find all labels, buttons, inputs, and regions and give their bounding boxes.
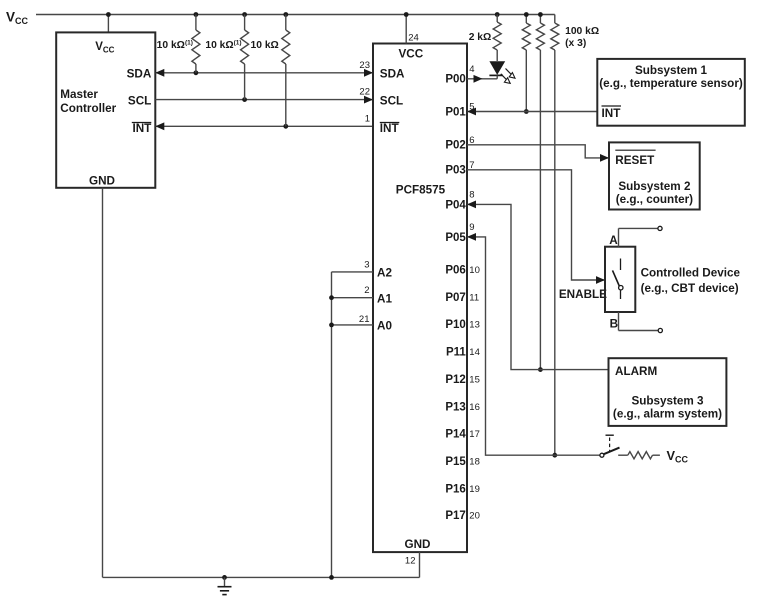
pin number 2 (364, 285, 369, 296)
junction dot VCC rail / Master stub (106, 12, 111, 17)
svg-text:VCC: VCC (398, 48, 423, 61)
svg-text:4: 4 (469, 64, 474, 75)
svg-text:1: 1 (365, 113, 370, 124)
pin label VCC (Master) (95, 41, 114, 55)
svg-text:ENABLE: ENABLE (559, 288, 607, 301)
pin number 7 (469, 160, 474, 171)
svg-text:INT: INT (132, 122, 152, 135)
pin label GND (Master) (89, 175, 115, 188)
pin label RESET (Subsystem 2) (615, 150, 655, 167)
junction dot VCC rail / pin 24 (404, 12, 409, 17)
svg-text:INT: INT (602, 107, 622, 120)
svg-text:14: 14 (469, 347, 480, 358)
text Subsystem 2 (616, 180, 693, 206)
block Subsystem 1 (597, 59, 745, 126)
resistor pullup at switch (628, 452, 653, 459)
svg-text:B: B (610, 318, 618, 331)
svg-text:100 kΩ: 100 kΩ (565, 26, 599, 37)
svg-text:P06: P06 (445, 265, 465, 277)
svg-text:P01: P01 (445, 106, 466, 118)
svg-text:(e.g., counter): (e.g., counter) (616, 193, 693, 206)
resistor 10 kOhm pullup 3 (282, 15, 290, 127)
junction dot 100k-2 / ALARM (538, 367, 543, 372)
pin number 24 (408, 33, 419, 44)
pin label INT (Master) (132, 122, 152, 135)
svg-text:SDA: SDA (380, 68, 405, 81)
resistor 100 kOhm 1 (522, 15, 530, 51)
junction dot SCL / R2 pullup (242, 97, 247, 102)
pin label P13 (445, 401, 465, 413)
pin number 4 (469, 64, 474, 75)
junction dot VCC rail / 100k 2 (538, 12, 543, 17)
wire P00 to LED (467, 78, 497, 80)
junction dot 100k-3 / switch net (552, 453, 557, 458)
pin number 6 (469, 135, 474, 146)
svg-text:P11: P11 (446, 347, 466, 359)
svg-text:P13: P13 (445, 401, 465, 413)
junction dot INT / R3 pullup (283, 124, 288, 129)
pin number 8 (469, 189, 474, 200)
value label 10 kOhm 3 (251, 40, 279, 51)
arrowhead SDA into Master (155, 69, 164, 77)
terminal A (619, 226, 663, 246)
arrowhead SDA into PCF8575 pin 23 (364, 69, 373, 77)
text Master Controller name (60, 88, 116, 115)
pin label P10 (445, 319, 465, 331)
pin number 18 (469, 457, 480, 468)
svg-text:13: 13 (469, 320, 480, 331)
svg-text:A: A (609, 234, 618, 247)
wire 100k-3 down to switch net (554, 50, 556, 455)
svg-text:20: 20 (469, 510, 480, 521)
resistor 10 kOhm pullup 2 (241, 15, 249, 100)
wire Master VCC stub (107, 15, 109, 33)
svg-text:P16: P16 (445, 483, 465, 495)
pin label P12 (445, 374, 465, 386)
svg-text:2: 2 (364, 285, 369, 296)
value label 10 kOhm 1 (157, 40, 193, 52)
svg-text:3: 3 (364, 259, 369, 270)
value label 10 kOhm 2 (205, 40, 241, 52)
value label 2 kOhm (469, 32, 492, 43)
wire switch to resistor (618, 454, 628, 456)
pin number 5 (469, 102, 474, 113)
svg-text:Controlled Device: Controlled Device (641, 266, 741, 279)
node VCC at switch (667, 448, 689, 465)
junction dot VCC rail / 2k (495, 12, 500, 17)
pin label VCC (U1) (398, 48, 423, 61)
svg-text:2 kΩ: 2 kΩ (469, 32, 492, 43)
pin label P04 (445, 199, 466, 211)
ground (218, 577, 232, 594)
pin number 21 (359, 314, 370, 325)
svg-text:(e.g., temperature sensor): (e.g., temperature sensor) (599, 77, 743, 90)
junction dot VCC rail / 10k resistor 3 (283, 12, 288, 17)
svg-text:Controller: Controller (60, 102, 116, 115)
pin number 3 (364, 259, 369, 270)
wire VCC rail (36, 14, 555, 16)
junction dot 100k-1 / P01 (524, 109, 529, 114)
pin number 17 (469, 429, 480, 440)
junction dot VCC rail / 10k resistor 1 (194, 12, 199, 17)
pin label A0 (377, 320, 392, 333)
pin label SDA (Master) (127, 68, 152, 81)
svg-text:P04: P04 (445, 199, 466, 211)
wire SDA bus (155, 72, 373, 74)
wire A-bus vertical (331, 272, 333, 578)
wire P04 to ALARM (467, 204, 609, 369)
svg-text:(x 3): (x 3) (565, 38, 586, 49)
wire P01 to Subsystem 1 INT (467, 111, 597, 113)
wire P05 to switch (467, 237, 600, 455)
pin label INT (Subsystem 1) (602, 106, 622, 120)
svg-text:SDA: SDA (127, 68, 152, 81)
arrowhead P01 input (467, 108, 476, 116)
resistor 10 kOhm pullup 1 (192, 15, 200, 73)
svg-text:(e.g., CBT device): (e.g., CBT device) (641, 282, 739, 295)
pin label P00 (445, 74, 465, 86)
switch S1 pushbutton (600, 435, 620, 457)
svg-text:RESET: RESET (615, 154, 655, 167)
pin label P03 (445, 165, 465, 177)
arrowhead P00 output (474, 75, 483, 83)
pin label P06 (445, 265, 465, 277)
svg-text:15: 15 (469, 374, 480, 385)
svg-text:9: 9 (469, 222, 474, 233)
wire INT bus (155, 125, 373, 127)
pin number 13 (469, 320, 480, 331)
svg-text:A0: A0 (377, 320, 392, 333)
block Controlled Device switch box (605, 247, 635, 312)
svg-text:P10: P10 (445, 319, 465, 331)
svg-text:P15: P15 (445, 456, 466, 468)
text Subsystem 3 (613, 395, 722, 421)
pin number 9 (469, 222, 474, 233)
wire A1 strap (332, 297, 374, 299)
svg-text:(e.g., alarm system): (e.g., alarm system) (613, 407, 722, 420)
pin label P01 (445, 106, 466, 118)
svg-text:11: 11 (469, 292, 479, 303)
pin number 14 (469, 347, 480, 358)
svg-text:21: 21 (359, 314, 370, 325)
wire U1 GND pin 12 stub (419, 552, 421, 577)
pin number 22 (359, 87, 370, 98)
svg-text:Subsystem 1: Subsystem 1 (635, 64, 708, 77)
junction dot VCC rail / 10k resistor 2 (242, 12, 247, 17)
pin label P14 (445, 429, 466, 441)
svg-text:P17: P17 (445, 510, 465, 522)
svg-text:P07: P07 (445, 292, 465, 304)
junction dot A0 (329, 323, 334, 328)
svg-text:Subsystem 2: Subsystem 2 (618, 180, 691, 193)
pin number 23 (359, 60, 370, 71)
svg-text:SCL: SCL (380, 94, 403, 107)
svg-text:GND: GND (89, 175, 115, 188)
svg-text:10: 10 (469, 265, 480, 276)
wire P02 to RESET (467, 145, 609, 158)
pin number 15 (469, 374, 480, 385)
pin number 20 (469, 510, 480, 521)
svg-text:ALARM: ALARM (615, 365, 657, 378)
arrowhead P04 input (467, 201, 476, 209)
arrowhead SCL into PCF8575 pin 22 (364, 96, 373, 104)
text Controlled Device (641, 266, 741, 295)
svg-text:P05: P05 (445, 232, 466, 244)
pin number 16 (469, 402, 480, 413)
arrowhead RESET input (600, 154, 609, 162)
wire A2 strap (332, 271, 374, 273)
wire SCL bus (155, 99, 373, 101)
svg-text:17: 17 (469, 429, 480, 440)
LED D1 (489, 61, 515, 83)
svg-text:19: 19 (469, 484, 480, 495)
resistor 100 kOhm 2 (536, 15, 544, 51)
svg-text:16: 16 (469, 402, 480, 413)
junction dot A-bus / ground rail (329, 575, 334, 580)
svg-text:PCF8575: PCF8575 (396, 184, 446, 197)
node VCC supply label (6, 9, 29, 26)
svg-text:SCL: SCL (128, 94, 151, 107)
wire 100k-1 to P01 net (525, 50, 527, 112)
wire ground rail (103, 576, 420, 578)
pin label P17 (445, 510, 465, 522)
node A label (609, 234, 618, 247)
pin label INT (U1) (380, 122, 400, 135)
svg-text:12: 12 (405, 556, 416, 567)
svg-text:P14: P14 (445, 429, 466, 441)
junction dot ground symbol (222, 575, 227, 580)
pin label P11 (446, 347, 466, 359)
pin label A1 (377, 293, 392, 306)
pin label SCL (Master) (128, 94, 151, 107)
svg-text:P00: P00 (445, 74, 465, 86)
pin label SCL (U1) (380, 94, 403, 107)
wire A0 strap (332, 324, 374, 326)
block Subsystem 2 (609, 142, 700, 209)
wire VCC pin 24 stub (405, 15, 407, 44)
arrowhead ENABLE input (596, 276, 605, 284)
pin label SDA (U1) (380, 68, 405, 81)
svg-text:Subsystem 3: Subsystem 3 (631, 395, 704, 408)
pin label P07 (445, 292, 465, 304)
svg-text:P03: P03 (445, 165, 465, 177)
arrowhead P05 input (467, 233, 476, 241)
wire resistor to VCC (653, 454, 660, 456)
svg-text:A1: A1 (377, 293, 392, 306)
pin number 1 (365, 113, 370, 124)
svg-text:P12: P12 (445, 374, 465, 386)
svg-text:10 kΩ: 10 kΩ (251, 40, 279, 51)
junction dot VCC rail / 100k 1 (524, 12, 529, 17)
svg-text:P02: P02 (445, 140, 465, 152)
block Subsystem 3 (609, 358, 727, 426)
node B label (610, 318, 618, 331)
text Subsystem 1 (599, 64, 743, 90)
text ENABLE (559, 288, 607, 301)
pin label P02 (445, 140, 465, 152)
pin number 12 (405, 556, 416, 567)
svg-text:23: 23 (359, 60, 370, 71)
svg-text:24: 24 (408, 33, 419, 44)
junction dot A1 (329, 295, 334, 300)
svg-text:INT: INT (380, 122, 400, 135)
wire 100k-2 down to ALARM net (539, 50, 541, 370)
wire P03 to ENABLE (467, 170, 605, 280)
arrowhead INT into Master (155, 122, 164, 130)
switch inside Controlled Device (613, 259, 624, 300)
value label 100 kOhm (x 3) (565, 26, 599, 49)
junction dot SDA / R1 pullup (194, 70, 199, 75)
pin label P16 (445, 483, 465, 495)
pin number 19 (469, 484, 480, 495)
svg-text:18: 18 (469, 457, 480, 468)
block Master Controller (56, 32, 155, 187)
text PCF8575 part name (396, 184, 446, 197)
resistor 2 kOhm (493, 15, 501, 62)
pin number 10 (469, 265, 480, 276)
resistor 100 kOhm 3 (551, 15, 559, 51)
block PCF8575 U1 (373, 44, 467, 553)
svg-text:Master: Master (60, 88, 98, 101)
pin label GND (U1) (405, 538, 431, 551)
svg-text:22: 22 (359, 87, 370, 98)
pin label P05 (445, 232, 466, 244)
wire Master GND down (102, 188, 104, 578)
svg-text:8: 8 (469, 189, 474, 200)
pin number 11 (469, 292, 479, 303)
pin label P15 (445, 456, 466, 468)
terminal B (619, 312, 663, 333)
pin label A2 (377, 267, 392, 280)
svg-text:A2: A2 (377, 267, 392, 280)
pin label ALARM (Subsystem 3) (615, 365, 657, 378)
svg-text:GND: GND (405, 538, 431, 551)
